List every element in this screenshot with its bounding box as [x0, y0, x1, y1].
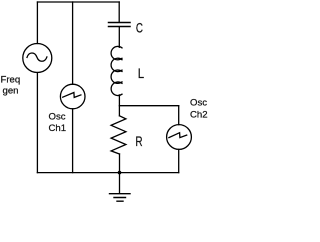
svg-text:Ch1: Ch1 — [49, 123, 67, 134]
wire: bottom horizontal bus — [37, 172, 178, 174]
svg-text:gen: gen — [3, 86, 19, 97]
label: Osc Ch1 — [49, 112, 67, 135]
svg-text:Freq: Freq — [1, 75, 21, 86]
wire: left vertical, top wire to source — [36, 2, 38, 44]
AC source: sine wave glyph — [27, 53, 47, 61]
wire: tap from node to Osc Ch2 (horizontal) — [119, 105, 178, 107]
capacitor C1 plates — [109, 23, 131, 27]
node: junction of resistor leg and bottom bus — [118, 171, 120, 173]
svg-text:C: C — [136, 20, 143, 36]
svg-text:Ch2: Ch2 — [190, 110, 208, 121]
oscilloscope Ch2 probe circle — [167, 125, 192, 150]
oscilloscope Ch1 probe circle — [60, 84, 85, 109]
inductor L1 coil — [111, 46, 122, 95]
label: Freq gen — [1, 75, 21, 97]
wire: Osc Ch1 bottom to bottom bus — [72, 109, 74, 173]
svg-text:Osc: Osc — [49, 112, 66, 123]
svg-text:R: R — [135, 133, 142, 149]
wire: resistor to bottom bus — [119, 154, 121, 173]
wire: top horizontal bus — [38, 1, 120, 3]
ground stem wire — [119, 173, 121, 193]
oscilloscope Ch1 sawtooth glyph — [63, 93, 81, 98]
wire: top wire down to capacitor — [118, 2, 120, 22]
oscilloscope Ch2 sawtooth glyph — [169, 133, 187, 138]
wire: source bottom to bottom bus — [36, 73, 38, 173]
label: Osc Ch2 — [190, 97, 208, 120]
wire: inductor to resistor — [118, 95, 120, 116]
ground symbol — [110, 194, 131, 202]
svg-text:Osc: Osc — [190, 97, 207, 108]
resistor R1 zigzag — [111, 116, 126, 154]
wire: Osc Ch2 bottom to bottom bus — [178, 149, 180, 172]
wire: capacitor to inductor — [118, 27, 120, 47]
svg-text:L: L — [138, 65, 145, 81]
wire: middle vertical, top wire to Osc Ch1 — [72, 2, 74, 84]
AC source: frequency generator circle — [23, 44, 52, 73]
wire: Osc Ch2 vertical drop — [178, 106, 180, 125]
